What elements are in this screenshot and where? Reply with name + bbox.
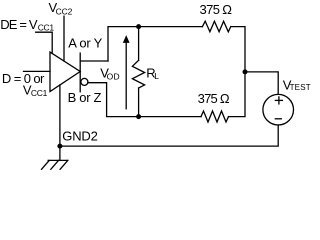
svg-text:B or Z: B or Z xyxy=(68,90,102,105)
svg-text:CC2: CC2 xyxy=(56,6,73,16)
svg-text:375 Ω: 375 Ω xyxy=(200,2,233,17)
svg-text:DE = V: DE = V xyxy=(0,17,38,32)
svg-text:OD: OD xyxy=(107,72,120,82)
svg-text:L: L xyxy=(154,71,159,81)
svg-text:CC1: CC1 xyxy=(31,88,48,98)
svg-text:A or Y: A or Y xyxy=(68,36,102,51)
svg-text:GND2: GND2 xyxy=(62,129,98,144)
svg-text:375 Ω: 375 Ω xyxy=(198,91,230,106)
svg-text:CC1: CC1 xyxy=(38,22,55,32)
svg-text:TEST: TEST xyxy=(290,83,311,92)
